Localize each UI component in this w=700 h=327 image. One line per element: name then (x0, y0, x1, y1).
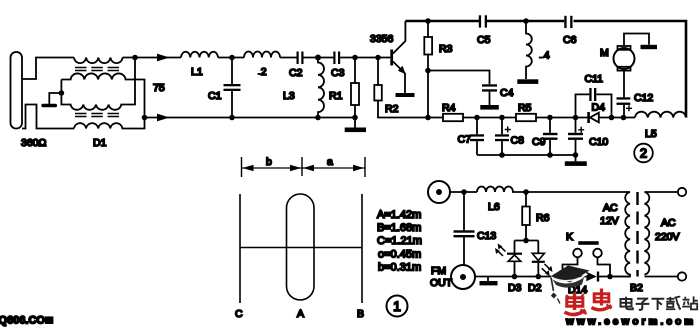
svg-text:C8: C8 (511, 135, 525, 147)
node C12 bottom (621, 115, 627, 121)
node R6 top (523, 189, 529, 195)
antenna folded dipole (11, 52, 75, 129)
wire (280, 57, 297, 59)
motor M (614, 34, 650, 98)
node C7 (474, 115, 480, 121)
svg-text:12V: 12V (600, 215, 619, 227)
balun transformer D1 (61, 58, 144, 129)
transistor Q1 3356 (390, 21, 406, 93)
svg-text:R3: R3 (439, 43, 453, 55)
svg-text:L1: L1 (191, 66, 203, 78)
svg-text:C2: C2 (289, 67, 303, 79)
watermark cn glyph zai (666, 297, 681, 310)
svg-text:B2: B2 (630, 282, 643, 294)
bottom feed wire with arrow (142, 114, 355, 122)
capacitor C5 (479, 15, 487, 27)
capacitor C7 (470, 118, 484, 156)
svg-text:R6: R6 (536, 212, 550, 224)
element B line (361, 194, 363, 303)
watermark cn glyph zhan (682, 296, 698, 309)
svg-text:R5: R5 (518, 102, 532, 114)
capacitor C4 (428, 71, 497, 106)
svg-text:b: b (266, 156, 272, 168)
node LED split (523, 238, 529, 244)
svg-text:2: 2 (261, 66, 267, 78)
bottom cap bus wire (477, 154, 576, 156)
node R3 top (425, 18, 431, 24)
svg-text:C5: C5 (477, 34, 491, 46)
svg-text:AC: AC (661, 217, 676, 229)
svg-text:D2: D2 (528, 282, 542, 294)
svg-text:B=1.68m: B=1.68m (377, 222, 421, 234)
svg-text:D3: D3 (508, 282, 522, 294)
svg-text:L3: L3 (283, 90, 295, 102)
svg-text:3356: 3356 (370, 33, 394, 45)
node R1 bottom (352, 115, 358, 121)
top feed wire with arrow (123, 54, 181, 62)
svg-text:AC: AC (603, 202, 618, 214)
svg-text:OUT: OUT (430, 277, 453, 289)
resistor R2 (374, 58, 443, 118)
svg-text:C4: C4 (500, 87, 514, 99)
capacitor C11 loop (576, 88, 612, 118)
LED D2 (532, 241, 553, 277)
node D2 bottom (536, 274, 542, 280)
figure1 dimension ticks (242, 157, 366, 177)
circled 2 (634, 144, 653, 163)
circled 1 (387, 296, 408, 317)
ground emitter (396, 93, 415, 97)
node L3 bottom (315, 115, 321, 121)
svg-text:220V: 220V (655, 231, 680, 243)
watermark chong1 red bug (565, 293, 587, 315)
transformer B2 primary (610, 192, 630, 277)
resistor R5 (516, 114, 536, 121)
svg-text:M: M (600, 47, 609, 59)
ground below L4 (517, 79, 538, 84)
node C1 top (229, 55, 235, 61)
resistor R1 (351, 58, 359, 128)
capacitor C12 (617, 97, 633, 117)
inductor L2 (.2) (244, 52, 280, 58)
transformer B2 secondary (645, 192, 650, 275)
D1 center tap to chassis (41, 90, 64, 107)
watermark Q606.COM (0, 315, 53, 327)
node C9 (547, 115, 553, 121)
svg-text:C12: C12 (634, 92, 653, 104)
svg-text:D1: D1 (93, 137, 107, 149)
resistor R3 (424, 21, 432, 118)
boom line (240, 247, 362, 249)
svg-text:C11: C11 (585, 73, 604, 85)
svg-text:Q606.CO: Q606.CO (0, 315, 45, 327)
svg-text:R4: R4 (442, 102, 456, 114)
node C11 right (609, 115, 615, 121)
ground FM rail (480, 277, 498, 286)
svg-text:A: A (297, 308, 304, 320)
capacitor C3 (333, 52, 390, 65)
watermark cn glyph dian (621, 297, 633, 309)
node D3 bottom (512, 274, 518, 280)
wire (218, 57, 244, 59)
svg-text:C: C (235, 308, 243, 320)
svg-text:L5: L5 (645, 128, 657, 140)
inductor L4 (526, 21, 532, 79)
svg-text:D4: D4 (592, 102, 606, 114)
capacitor C13 (454, 192, 475, 265)
svg-text:C1: C1 (208, 90, 222, 102)
ground motor (641, 45, 658, 49)
svg-text:360Ω: 360Ω (21, 137, 47, 149)
element A folded dipole (287, 194, 315, 300)
svg-text:C=1.21m: C=1.21m (377, 235, 422, 247)
capacitor C9 (543, 118, 558, 156)
inductor L6 (477, 187, 630, 193)
svg-text:4: 4 (544, 50, 550, 62)
bottom rail section2 (463, 117, 516, 119)
top supply rail section2 (405, 20, 479, 23)
resistor R4 (443, 114, 463, 121)
FM out connector bottom (451, 265, 475, 289)
LED branch wire (515, 240, 539, 242)
svg-text:a: a (327, 156, 333, 168)
node C1 bottom (229, 115, 235, 121)
node C8 (499, 115, 505, 121)
svg-text:K: K (566, 231, 573, 243)
svg-text:1: 1 (393, 298, 401, 314)
svg-text:FM: FM (431, 265, 446, 277)
svg-text:L6: L6 (488, 201, 500, 213)
node switch right (607, 274, 613, 280)
svg-text:A=1.42m: A=1.42m (377, 209, 421, 221)
resistor R6 (522, 192, 530, 241)
node C13 top (461, 189, 467, 195)
capacitor C10 (568, 118, 584, 156)
watermark cn glyph zi (636, 299, 650, 310)
node base (375, 55, 381, 61)
LED D3 (495, 241, 522, 277)
ground below C4 (480, 105, 499, 110)
element C line (239, 194, 241, 303)
inductor L1 (181, 52, 218, 58)
node R1 top (352, 55, 358, 61)
node switch left (560, 274, 566, 280)
svg-text:R2: R2 (385, 103, 399, 115)
capacitor C6 (564, 16, 572, 28)
svg-text:C13: C13 (477, 230, 496, 242)
svg-text:C7: C7 (458, 134, 472, 146)
svg-text:b=0.31m: b=0.31m (378, 262, 421, 274)
power bottom rail (475, 276, 586, 278)
svg-text:75: 75 (153, 82, 165, 94)
inductor L3 (318, 58, 324, 118)
watermark eeworm logo cap (550, 266, 590, 304)
node L3 top (315, 55, 321, 61)
svg-text:C9: C9 (532, 136, 546, 148)
secondary terminals (645, 188, 687, 281)
watermark chong2 red bug (592, 289, 612, 310)
node C10 (573, 115, 579, 121)
diode D4 (587, 112, 599, 123)
transformer B2 core (636, 192, 638, 277)
svg-text:2: 2 (640, 146, 647, 161)
capacitor C2 (297, 52, 334, 65)
dimension arrows (243, 165, 365, 171)
svg-text:B: B (357, 308, 364, 320)
capacitor C8 (495, 118, 511, 156)
capacitor C1 (224, 58, 241, 118)
svg-text:C3: C3 (331, 67, 345, 79)
node R3/R2 join (425, 115, 431, 121)
svg-text:R1: R1 (329, 90, 343, 102)
inductor L5 (635, 112, 686, 118)
node L4 top (523, 18, 529, 24)
svg-text:o=0.45m: o=0.45m (378, 249, 421, 261)
watermark cn glyph xia (652, 299, 665, 310)
svg-text:C10: C10 (589, 136, 608, 148)
svg-text:C6: C6 (563, 34, 577, 46)
ground below C10 (565, 155, 587, 166)
svg-text:www.eeworm.com: www.eeworm.com (565, 317, 696, 327)
ground below R1 (345, 128, 366, 133)
node R3 bottom tap (425, 68, 431, 74)
switch K (563, 241, 611, 276)
diode D14 (586, 272, 599, 282)
FM out connector top (428, 181, 477, 203)
dimension values (377, 209, 422, 274)
